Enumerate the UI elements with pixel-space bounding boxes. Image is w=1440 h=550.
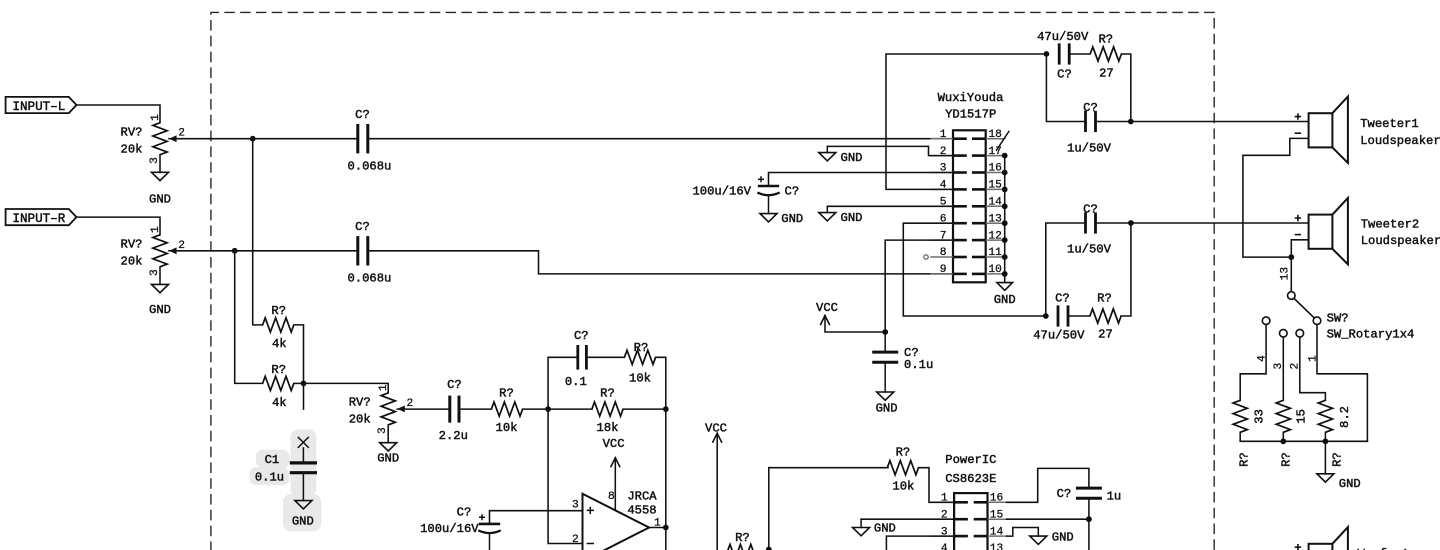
svg-text:GND: GND [1339, 477, 1361, 491]
svg-text:C?: C? [1083, 101, 1098, 115]
svg-text:R?: R? [271, 363, 286, 377]
svg-text:0.068u: 0.068u [347, 272, 391, 286]
svg-text:JRCA: JRCA [627, 489, 657, 503]
svg-text:2: 2 [572, 534, 579, 546]
svg-text:15: 15 [990, 509, 1003, 521]
svg-text:47u/50V: 47u/50V [1037, 30, 1089, 44]
svg-text:3: 3 [377, 427, 389, 434]
svg-text:VCC: VCC [705, 421, 727, 435]
svg-text:100u/16V: 100u/16V [692, 184, 751, 198]
svg-text:0.1u: 0.1u [904, 358, 933, 372]
svg-text:C?: C? [574, 329, 589, 343]
svg-text:R?: R? [896, 445, 911, 459]
svg-text:R?: R? [1098, 32, 1113, 46]
svg-text:1: 1 [940, 129, 947, 141]
svg-text:C?: C? [1057, 68, 1072, 82]
svg-text:C1: C1 [265, 453, 280, 467]
svg-text:20k: 20k [349, 413, 371, 427]
svg-text:12: 12 [988, 230, 1001, 242]
svg-text:Tweeter2: Tweeter2 [1361, 218, 1420, 232]
svg-text:20k: 20k [121, 255, 143, 269]
svg-text:4: 4 [941, 543, 948, 550]
svg-text:27: 27 [1099, 67, 1114, 81]
svg-text:33: 33 [1253, 409, 1267, 424]
svg-text:1u: 1u [1107, 490, 1122, 504]
svg-text:C?: C? [355, 220, 370, 234]
svg-text:RV?: RV? [121, 126, 143, 140]
svg-text:20k: 20k [121, 143, 143, 157]
svg-text:2: 2 [178, 240, 185, 252]
svg-text:4k: 4k [272, 396, 287, 410]
svg-text:GND: GND [1052, 531, 1074, 545]
svg-text:GND: GND [149, 303, 171, 317]
svg-text:2: 2 [406, 398, 413, 410]
svg-text:Loudspeaker: Loudspeaker [1361, 234, 1440, 248]
svg-text:14: 14 [988, 197, 1002, 209]
svg-text:C?: C? [355, 108, 370, 122]
svg-text:PowerIC: PowerIC [945, 453, 996, 467]
svg-text:18k: 18k [597, 421, 619, 435]
svg-text:1: 1 [150, 226, 162, 233]
svg-text:C?: C? [1083, 203, 1098, 217]
svg-text:R?: R? [735, 531, 750, 545]
svg-text:18: 18 [988, 129, 1001, 141]
svg-text:Loudspeaker: Loudspeaker [1360, 134, 1440, 148]
svg-text:0.1: 0.1 [565, 375, 587, 389]
svg-text:0.068u: 0.068u [347, 160, 391, 174]
svg-text:SW?: SW? [1327, 311, 1349, 325]
svg-text:1u/50V: 1u/50V [1067, 243, 1112, 257]
svg-text:GND: GND [874, 522, 896, 536]
svg-text:10k: 10k [496, 421, 518, 435]
svg-text:GND: GND [149, 193, 171, 207]
svg-text:WuxiYouda: WuxiYouda [938, 91, 1004, 105]
svg-text:100u/16V: 100u/16V [420, 522, 479, 536]
svg-text:R?: R? [634, 341, 649, 355]
svg-text:13: 13 [1279, 267, 1291, 280]
svg-text:3: 3 [149, 269, 161, 276]
svg-text:RV?: RV? [349, 396, 371, 410]
svg-text:R?: R? [499, 386, 514, 400]
svg-text:R?: R? [600, 386, 615, 400]
svg-text:3: 3 [149, 157, 161, 164]
svg-text:10k: 10k [629, 372, 651, 386]
svg-text:R?: R? [271, 304, 286, 318]
svg-text:10k: 10k [892, 480, 914, 494]
svg-text:4558: 4558 [627, 504, 656, 518]
svg-text:R?: R? [1280, 452, 1294, 467]
svg-text:Tweeter1: Tweeter1 [1360, 117, 1419, 131]
svg-text:8: 8 [608, 491, 615, 503]
svg-text:C?: C? [1057, 487, 1072, 501]
svg-text:8: 8 [940, 247, 947, 259]
svg-text:GND: GND [377, 451, 399, 465]
svg-text:13: 13 [988, 213, 1001, 225]
svg-text:1u/50V: 1u/50V [1067, 142, 1112, 156]
svg-text:C?: C? [1055, 292, 1070, 306]
svg-text:C?: C? [785, 184, 800, 198]
svg-text:8.2: 8.2 [1338, 406, 1352, 428]
svg-text:R?: R? [1097, 292, 1112, 306]
svg-text:2.2u: 2.2u [439, 429, 468, 443]
svg-text:1: 1 [150, 114, 162, 121]
svg-text:2: 2 [178, 128, 185, 140]
svg-text:16: 16 [990, 493, 1003, 505]
svg-text:R?: R? [1238, 452, 1252, 467]
svg-text:GND: GND [994, 293, 1016, 307]
svg-text:4k: 4k [272, 337, 287, 351]
svg-text:VCC: VCC [816, 301, 838, 315]
svg-text:15: 15 [1295, 409, 1309, 424]
svg-text:13: 13 [990, 543, 1003, 550]
svg-text:14: 14 [990, 526, 1004, 538]
svg-text:SW_Rotary1x4: SW_Rotary1x4 [1327, 328, 1415, 342]
svg-text:RV?: RV? [121, 238, 143, 252]
svg-text:0.1u: 0.1u [255, 470, 284, 484]
svg-text:GND: GND [876, 402, 898, 416]
svg-text:10: 10 [988, 264, 1002, 276]
svg-text:GND: GND [292, 514, 314, 528]
svg-text:1: 1 [378, 384, 390, 391]
svg-text:11: 11 [988, 247, 1002, 259]
svg-text:R?: R? [1330, 452, 1344, 467]
svg-text:16: 16 [988, 163, 1001, 175]
svg-text:3: 3 [572, 500, 579, 512]
svg-text:INPUT–L: INPUT–L [12, 100, 65, 114]
svg-text:GND: GND [841, 211, 863, 225]
svg-text:CS8623E: CS8623E [945, 472, 996, 486]
svg-text:27: 27 [1098, 328, 1113, 342]
svg-text:YD1517P: YD1517P [945, 108, 996, 122]
svg-text:INPUT–R: INPUT–R [12, 212, 65, 226]
svg-text:C?: C? [447, 378, 462, 392]
svg-text:VCC: VCC [603, 437, 625, 451]
svg-text:GND: GND [781, 212, 803, 226]
svg-text:47u/50V: 47u/50V [1033, 329, 1085, 343]
svg-text:15: 15 [988, 180, 1001, 192]
svg-text:C?: C? [457, 505, 472, 519]
svg-text:17: 17 [988, 146, 1001, 158]
svg-text:GND: GND [841, 151, 863, 165]
svg-text:9: 9 [940, 264, 947, 276]
